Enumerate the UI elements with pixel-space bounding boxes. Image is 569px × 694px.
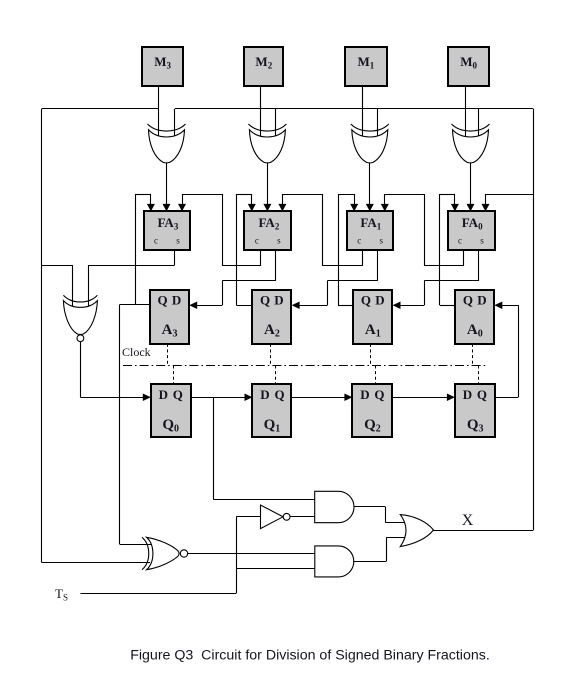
svg-text:s: s (480, 236, 484, 246)
wire clock distribution line (123, 365, 488, 367)
svg-text:s: s (380, 236, 384, 246)
wire top bus segment left (net X) (42, 108, 159, 110)
full-adder FA2 (244, 211, 291, 250)
and-gate G1 (315, 491, 354, 522)
wire XOR U2 output to FA2 b-input (263, 163, 271, 212)
svg-text:Q: Q (374, 387, 384, 402)
full-adder FA0 (448, 211, 495, 250)
svg-text:D: D (260, 387, 269, 402)
wire clock stub to Q1 (275, 366, 277, 384)
wire XOR U3 output to FA3 b-input (163, 163, 171, 212)
wire Q1 Q-output to Q2 D-input (291, 394, 352, 402)
label Clock (122, 345, 151, 359)
xnor-gate U6 (quotient logic) (142, 537, 188, 569)
svg-text:D: D (463, 387, 472, 402)
register M3 (142, 47, 183, 86)
wire bus tap to XOR U1 right input (377, 109, 379, 140)
svg-text:D: D (172, 292, 181, 307)
register M1 (345, 47, 387, 86)
wire clock stub to A0 (472, 344, 474, 366)
wire FA2 sum to A3 D-input (189, 250, 276, 309)
wire A2 Q-output to FA2 a-input (236, 194, 255, 306)
label X (462, 512, 474, 529)
wire AND G1 output to OR gate (354, 507, 406, 523)
wire OR output X to right rail (434, 530, 534, 532)
wire bus tap to XOR U3 right input (174, 109, 176, 140)
full-adder FA1 (347, 211, 393, 250)
svg-text:c: c (154, 236, 158, 246)
wire Q3 Q-output to A0 D-input (494, 301, 518, 397)
label TS (55, 586, 68, 603)
register A3 (150, 290, 189, 344)
svg-text:Q: Q (260, 292, 270, 307)
wire clock stub to A3 (167, 344, 169, 366)
svg-text:Q: Q (274, 387, 284, 402)
svg-text:c: c (357, 236, 361, 246)
svg-text:Q: Q (463, 292, 473, 307)
svg-text:D: D (274, 292, 283, 307)
wire FA1 sum to A2 D-input (292, 250, 378, 309)
svg-text:D: D (159, 387, 168, 402)
register M0 (448, 47, 489, 86)
svg-text:c: c (458, 236, 462, 246)
wire bus tap to XOR U0 right input (478, 109, 480, 140)
or-gate G3 (400, 515, 433, 547)
wire Q0 Q-output to Q1 D-input (191, 394, 253, 402)
svg-text:X: X (462, 512, 474, 529)
register A1 (353, 290, 392, 344)
register Q1 (252, 384, 291, 437)
wire FA0 carry-out to FA1 carry-in (381, 194, 464, 266)
svg-text:D: D (375, 292, 384, 307)
wire AND G2 output to OR gate (354, 538, 406, 562)
wire quotient XNOR output to AND gate G2 (188, 553, 315, 555)
wire sign XNOR output to Q0 D-input (80, 342, 150, 401)
register A2 (252, 290, 291, 344)
and-gate G2 (315, 546, 354, 577)
wire Q2 Q-output to Q3 D-input (392, 394, 455, 402)
wire X rail branch to quotient XNOR input (42, 562, 151, 564)
wire A3 Q-output to FA3 a-input and quotient XNOR (120, 194, 155, 545)
wire X rail branch to sign XNOR input (42, 265, 73, 307)
svg-text:D: D (360, 387, 369, 402)
svg-text:Clock: Clock (122, 345, 151, 359)
svg-text:Q: Q (477, 387, 487, 402)
wire FA0 sum to A1 D-input (393, 250, 480, 309)
wire top bus segment right (net X) (175, 108, 534, 110)
svg-text:Q: Q (158, 292, 168, 307)
wire left rail (net X) (41, 109, 43, 562)
wire M2 output to XOR (260, 86, 262, 140)
wire clock stub to Q3 (478, 366, 480, 384)
not-gate U7 (261, 505, 291, 529)
wire bus tap to XOR U2 right input (275, 109, 277, 140)
register Q3 (455, 384, 495, 437)
wire XOR U0 output to FA0 b-input (467, 163, 475, 212)
wire M1 output to XOR (362, 86, 364, 140)
wire clock stub to Q2 (375, 366, 377, 384)
wire FA3 sum to sign XNOR input (88, 250, 174, 307)
svg-text:Q: Q (361, 292, 371, 307)
wire M3 output to XOR (158, 86, 160, 140)
xor-gate U2 (248, 124, 286, 163)
svg-text:D: D (477, 292, 486, 307)
wire XOR U1 output to FA1 b-input (366, 163, 374, 212)
register A0 (455, 290, 494, 344)
wire right rail (net X) (533, 109, 535, 530)
wire NOT output to AND gate G1 (290, 516, 315, 518)
full-adder FA3 (144, 211, 190, 250)
svg-text:s: s (176, 236, 180, 246)
xor-gate U3 (148, 124, 186, 163)
wire FA1 carry-out to FA2 carry-in (278, 194, 362, 266)
wire TS input line (80, 593, 236, 595)
wire clock stub to Q0 (173, 366, 175, 384)
wire clock stub to A1 (370, 344, 372, 366)
xnor-gate U5 (sign compare) (63, 295, 97, 341)
xor-gate U1 (351, 124, 389, 163)
svg-text:s: s (277, 236, 281, 246)
svg-text:c: c (255, 236, 259, 246)
wire A1 Q-output to FA1 a-input (338, 194, 358, 306)
caption (130, 648, 490, 664)
wire A0 Q-output to FA0 a-input (440, 194, 459, 306)
wire TS riser to NOT gate and AND gate G2 (236, 517, 314, 594)
svg-text:Figure Q3 Circuit for Divisio: Figure Q3 Circuit for Division of Signed… (130, 648, 490, 664)
xor-gate U0 (452, 124, 490, 163)
register M2 (244, 47, 283, 86)
register Q2 (352, 384, 392, 437)
wire FA2 carry-out to FA3 carry-in (178, 194, 261, 266)
wire M0 output to XOR (465, 86, 467, 140)
svg-text:Q: Q (173, 387, 183, 402)
wire X rail to FA0 carry-in (482, 194, 534, 211)
wire Q0 output branch to AND gate G1 (213, 397, 315, 499)
register Q0 (151, 384, 191, 437)
wire clock stub to A2 (270, 344, 272, 366)
